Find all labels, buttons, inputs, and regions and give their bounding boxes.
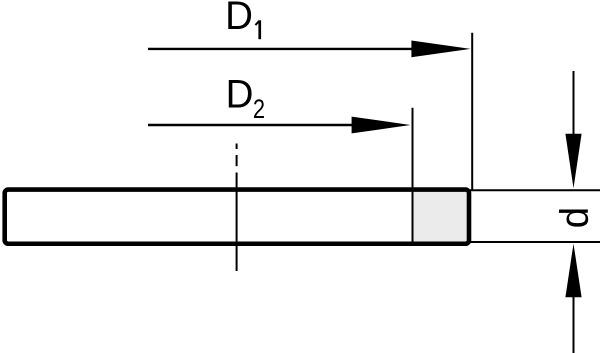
svg-text:D: D	[225, 0, 253, 38]
svg-text:2: 2	[253, 94, 265, 124]
svg-text:D: D	[226, 73, 254, 117]
svg-text:d: d	[553, 207, 597, 228]
